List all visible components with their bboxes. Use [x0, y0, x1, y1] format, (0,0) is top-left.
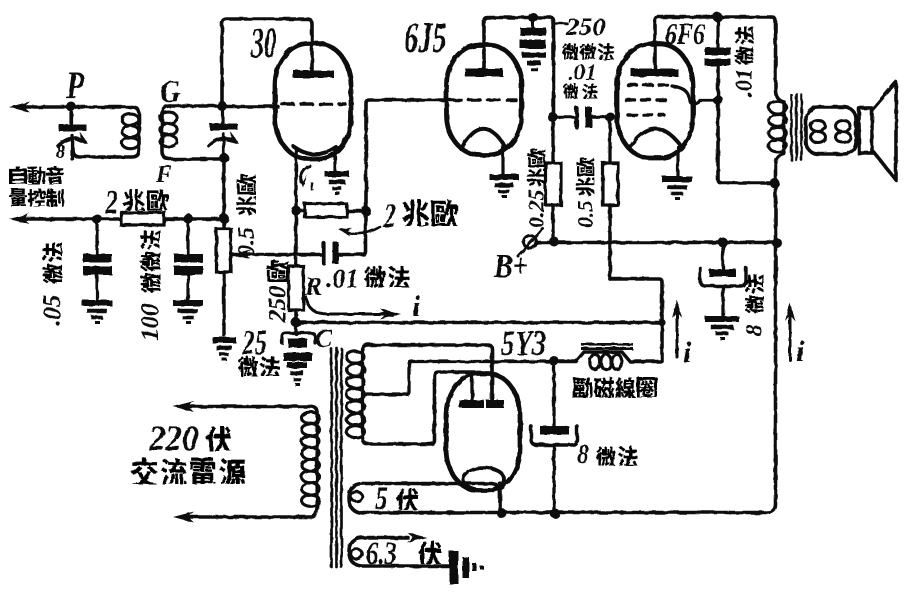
svg-text:6.3: 6.3 — [366, 536, 397, 572]
svg-text:0.25: 0.25 — [523, 190, 548, 229]
capacitor .05uF — [83, 254, 112, 263]
junction field tap — [549, 356, 559, 366]
wire HV top — [362, 345, 492, 400]
tube 6J5 grid dashes — [450, 98, 516, 102]
junction AVC cap1 — [92, 214, 102, 224]
label AVC line2 — [9, 189, 27, 207]
capacitor .01 6F6 — [705, 48, 731, 56]
coil 5V loop — [363, 484, 500, 513]
capacitor .01 coupling 30 — [321, 243, 325, 263]
svg-text:6J5: 6J5 — [404, 13, 447, 62]
svg-text:5: 5 — [375, 481, 388, 516]
ground 100pF — [173, 300, 203, 306]
resistor R body — [289, 266, 304, 310]
capacitor tuning G — [221, 107, 224, 123]
tube 6F6 plate — [631, 69, 678, 77]
wire R top — [294, 216, 298, 266]
junction cathode rail — [497, 509, 507, 519]
junction B+ 8uF — [718, 238, 728, 248]
svg-text:0.5: 0.5 — [572, 201, 597, 229]
transformer core power — [330, 349, 333, 567]
wire AC top — [181, 407, 317, 413]
label .01 6F6 — [732, 27, 757, 97]
ground 6J5 — [490, 174, 519, 180]
label AVC line1 — [9, 166, 27, 184]
label 0.5M — [572, 158, 597, 228]
svg-text:250: 250 — [265, 286, 291, 323]
tube 5Y3 plate left lead — [470, 374, 473, 400]
svg-text:8: 8 — [56, 141, 66, 163]
svg-text:i: i — [412, 290, 421, 323]
wire antenna input — [18, 105, 132, 109]
svg-text:ι: ι — [310, 176, 315, 195]
svg-text:B+: B+ — [493, 247, 529, 285]
svg-text:.05: .05 — [39, 289, 66, 327]
coil L2 secondary — [162, 106, 222, 159]
speaker — [859, 108, 872, 153]
label 0.25M — [523, 149, 548, 228]
wire cathode rail — [296, 321, 662, 325]
tube 5Y3 cathode — [463, 468, 504, 491]
tube 5Y3 envelope — [446, 374, 520, 491]
wire field to 0.5M — [610, 279, 662, 361]
wire AC bottom — [181, 506, 317, 517]
tube 6F6 plate lead — [655, 17, 771, 69]
core field coil — [581, 343, 633, 346]
capacitor 250pF — [532, 17, 535, 28]
svg-text:P: P — [65, 63, 85, 107]
ground filament 30 — [325, 171, 350, 177]
ground .05 — [82, 300, 112, 306]
junction G bottom — [219, 153, 229, 163]
wire 8uF right bottom — [721, 286, 724, 316]
arrow AVC — [9, 214, 30, 225]
capacitor C 25uF — [282, 333, 315, 343]
wire 100p top — [186, 219, 189, 254]
tube 6F6 grid lead — [672, 86, 716, 104]
tube 6J5 envelope — [447, 45, 522, 155]
svg-text:8: 8 — [742, 319, 767, 336]
svg-text:0.5: 0.5 — [234, 227, 260, 257]
wire C top — [294, 322, 297, 334]
junction antenna/cap — [66, 102, 76, 112]
svg-text:8: 8 — [577, 438, 589, 469]
terminal B+ — [524, 236, 537, 249]
tube 5Y3 plate right — [486, 400, 504, 408]
wire 8uF right top — [721, 242, 724, 270]
junction B+ rail right — [772, 238, 782, 248]
wire field coil left — [554, 352, 662, 362]
chassis 6.3V — [449, 551, 459, 584]
svg-text:.01: .01 — [732, 63, 757, 98]
wire 0.5M bottom — [608, 205, 612, 279]
arrow AC bottom — [173, 512, 194, 523]
wire right rail top — [771, 17, 784, 102]
wire pot bottom — [222, 272, 225, 335]
tube 5Y3 plate right lead — [490, 352, 493, 400]
svg-text:.01: .01 — [326, 264, 359, 293]
pot wiper arrow — [233, 250, 251, 259]
label 100pF — [137, 230, 164, 341]
junction 6F6 top — [713, 12, 723, 22]
junction 2M right — [361, 206, 371, 216]
tube 6J5 cathode — [461, 129, 506, 149]
coil field — [590, 354, 600, 369]
tube 6F6 cathode — [629, 128, 681, 148]
coil HV secondary — [361, 351, 364, 438]
label 250 ohm — [265, 260, 291, 323]
capacitor 8uF right — [709, 269, 736, 277]
wire 30 plate to 6J5 grid — [366, 100, 447, 211]
label 8uF right — [742, 274, 767, 336]
tube 6F6 envelope — [617, 44, 693, 158]
wire R bottom — [294, 310, 298, 323]
svg-text:F: F — [155, 162, 172, 188]
wire plate-cap 30 — [222, 19, 312, 104]
svg-text:220: 220 — [148, 419, 198, 459]
wire 8uF left bottom — [552, 445, 555, 513]
junction B+ 0.25M — [549, 237, 559, 247]
svg-text:25: 25 — [241, 323, 267, 362]
junction 8uF rail — [550, 509, 560, 519]
svg-text:G: G — [160, 73, 180, 109]
wire HV center tap — [364, 362, 552, 395]
svg-text:100: 100 — [137, 297, 164, 341]
wire screen 6F6 — [718, 66, 773, 183]
wire .05 top — [95, 219, 98, 254]
resistor 2M AVC body — [121, 213, 164, 226]
junction AVC pot — [219, 214, 229, 224]
tube 6F6 grid dashes — [628, 83, 672, 86]
svg-text:5Y3: 5Y3 — [501, 323, 546, 363]
junction filament/resistor — [291, 206, 301, 216]
tube 6J5 plate — [465, 69, 503, 77]
resistor 0.25M body — [546, 163, 562, 205]
resistor 0.5M body — [603, 163, 619, 205]
transformer secondary and voice coil — [806, 107, 856, 154]
junction coupling left — [548, 112, 558, 122]
coil AC primary — [315, 412, 318, 507]
capacitor .01 coupling 6J5 — [553, 115, 575, 119]
capacitor tuning P — [70, 107, 73, 124]
tube 5Y3 cathode lead — [498, 483, 501, 512]
wire grid 30 — [222, 105, 278, 109]
label 250pF — [556, 22, 567, 25]
junction G top — [217, 101, 227, 111]
transformer core output — [790, 95, 793, 160]
coil output primary — [782, 102, 785, 154]
junction coupling right — [605, 112, 615, 122]
tube 6J5 plate lead — [484, 18, 550, 70]
current arrow filament — [301, 166, 310, 182]
svg-text:i: i — [796, 335, 805, 368]
junction R bottom — [291, 318, 301, 328]
resistor 2M body — [296, 209, 305, 213]
ground 250pF — [522, 52, 546, 58]
potentiometer 0.5M body — [217, 229, 232, 272]
tube 30 filament lead right — [333, 149, 336, 173]
wire AVC — [20, 217, 224, 221]
label .05uF — [39, 242, 66, 326]
tube 30 plate — [293, 71, 334, 79]
ground 6F6 — [662, 176, 692, 182]
wire 8uF left top — [552, 361, 555, 426]
wire right rail — [363, 154, 784, 513]
current arrow i cathode — [306, 297, 396, 314]
wire .05 bottom — [95, 275, 98, 301]
svg-text:i: i — [683, 336, 692, 369]
wire 0.5M top — [608, 117, 611, 163]
tube 6F6 cathode lead — [676, 147, 679, 176]
wire 0.25M bottom — [551, 205, 554, 242]
capacitor 8uF left — [540, 426, 569, 435]
junction 250pF — [528, 13, 538, 23]
label field coil — [572, 377, 592, 397]
coil 6.3V loop — [362, 536, 408, 540]
trimmer arrow G — [209, 138, 236, 146]
svg-text:250: 250 — [565, 13, 606, 41]
capacitor 100pF — [174, 254, 203, 263]
wire 0.25M top — [551, 117, 554, 163]
tube 30 filament lead left — [294, 150, 297, 210]
current arrow i left — [676, 305, 679, 357]
coil L1 primary loop — [73, 107, 139, 157]
junction AVC cap2 — [183, 214, 193, 224]
tube 6J5 cathode lead — [501, 145, 504, 175]
label 0.5M pot — [234, 174, 260, 257]
trimmer arrow P — [58, 138, 85, 146]
wire pot top — [222, 158, 225, 229]
wire B+ rail — [536, 241, 777, 245]
tube 30 filament — [293, 146, 336, 154]
svg-text:2: 2 — [382, 195, 396, 234]
wire G top — [170, 104, 222, 108]
svg-text:.01: .01 — [568, 60, 597, 85]
svg-text:30: 30 — [250, 18, 276, 67]
junction screen rail — [770, 178, 780, 188]
wire HV bottom — [363, 372, 475, 444]
arrow AC top — [173, 401, 194, 412]
tube 5Y3 plate left — [460, 400, 485, 408]
wire 6J5 top right — [550, 18, 554, 117]
ground pot — [212, 337, 236, 343]
arrow antenna input — [9, 102, 30, 113]
current arrow i right — [789, 308, 792, 360]
tube 30 envelope — [275, 44, 351, 160]
ground 8uF right — [705, 316, 739, 322]
ground C — [287, 362, 307, 368]
tube 30 grid dashes — [282, 102, 345, 106]
wire 100p bottom — [186, 275, 189, 301]
svg-text:2: 2 — [104, 183, 118, 221]
